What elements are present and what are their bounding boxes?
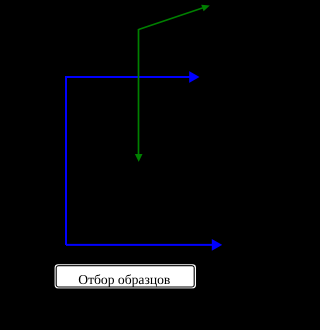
- box: white rounded rectangle background plate: [55, 264, 196, 288]
- wire: green diagonal connector: [139, 8, 203, 30]
- arrowhead: green up-right diagonal tip: [201, 5, 210, 12]
- svg-text:Отбор образцов: Отбор образцов: [78, 272, 170, 287]
- wire: blue left vertical connector: [65, 76, 67, 245]
- wire: blue bottom horizontal connector: [66, 244, 213, 246]
- label: box text: [78, 272, 170, 287]
- wire: blue top horizontal connector: [66, 76, 190, 78]
- arrowhead: green down-pointing: [135, 154, 143, 162]
- arrowhead: blue right-pointing (bottom): [212, 239, 222, 251]
- box border: black rounded rectangle outline: [56, 266, 194, 287]
- arrowhead: blue right-pointing (top): [189, 71, 199, 83]
- wire: green vertical connector: [138, 29, 140, 155]
